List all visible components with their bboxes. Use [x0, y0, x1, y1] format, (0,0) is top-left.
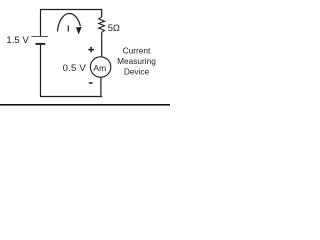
svg-text:Device: Device [124, 67, 150, 77]
label I [68, 25, 69, 31]
bottom rule [0, 104, 170, 106]
background [0, 0, 170, 111]
battery V1 plate short (-) [36, 43, 46, 45]
minus sign [89, 82, 93, 84]
wire left upper [40, 10, 42, 37]
svg-text:Am: Am [93, 63, 106, 73]
wire right lower [100, 77, 102, 96]
wire right mid [101, 32, 103, 57]
svg-text:0.5 V: 0.5 V [63, 63, 87, 74]
wire right upper [101, 10, 103, 18]
svg-text:1.5 V: 1.5 V [6, 35, 29, 46]
current arrow I [58, 14, 81, 32]
wire left lower [40, 45, 42, 97]
svg-text:Measuring: Measuring [117, 56, 156, 66]
svg-text:Current: Current [123, 45, 151, 55]
svg-text:5Ω: 5Ω [108, 22, 120, 33]
label Current Measuring Device [117, 45, 156, 76]
ammeter Am [90, 57, 110, 77]
plus sign [88, 47, 94, 53]
wire top [40, 9, 102, 11]
resistor R 5ohm [99, 17, 105, 33]
battery V1 plate long (+) [31, 36, 48, 38]
wire bottom [40, 96, 102, 98]
